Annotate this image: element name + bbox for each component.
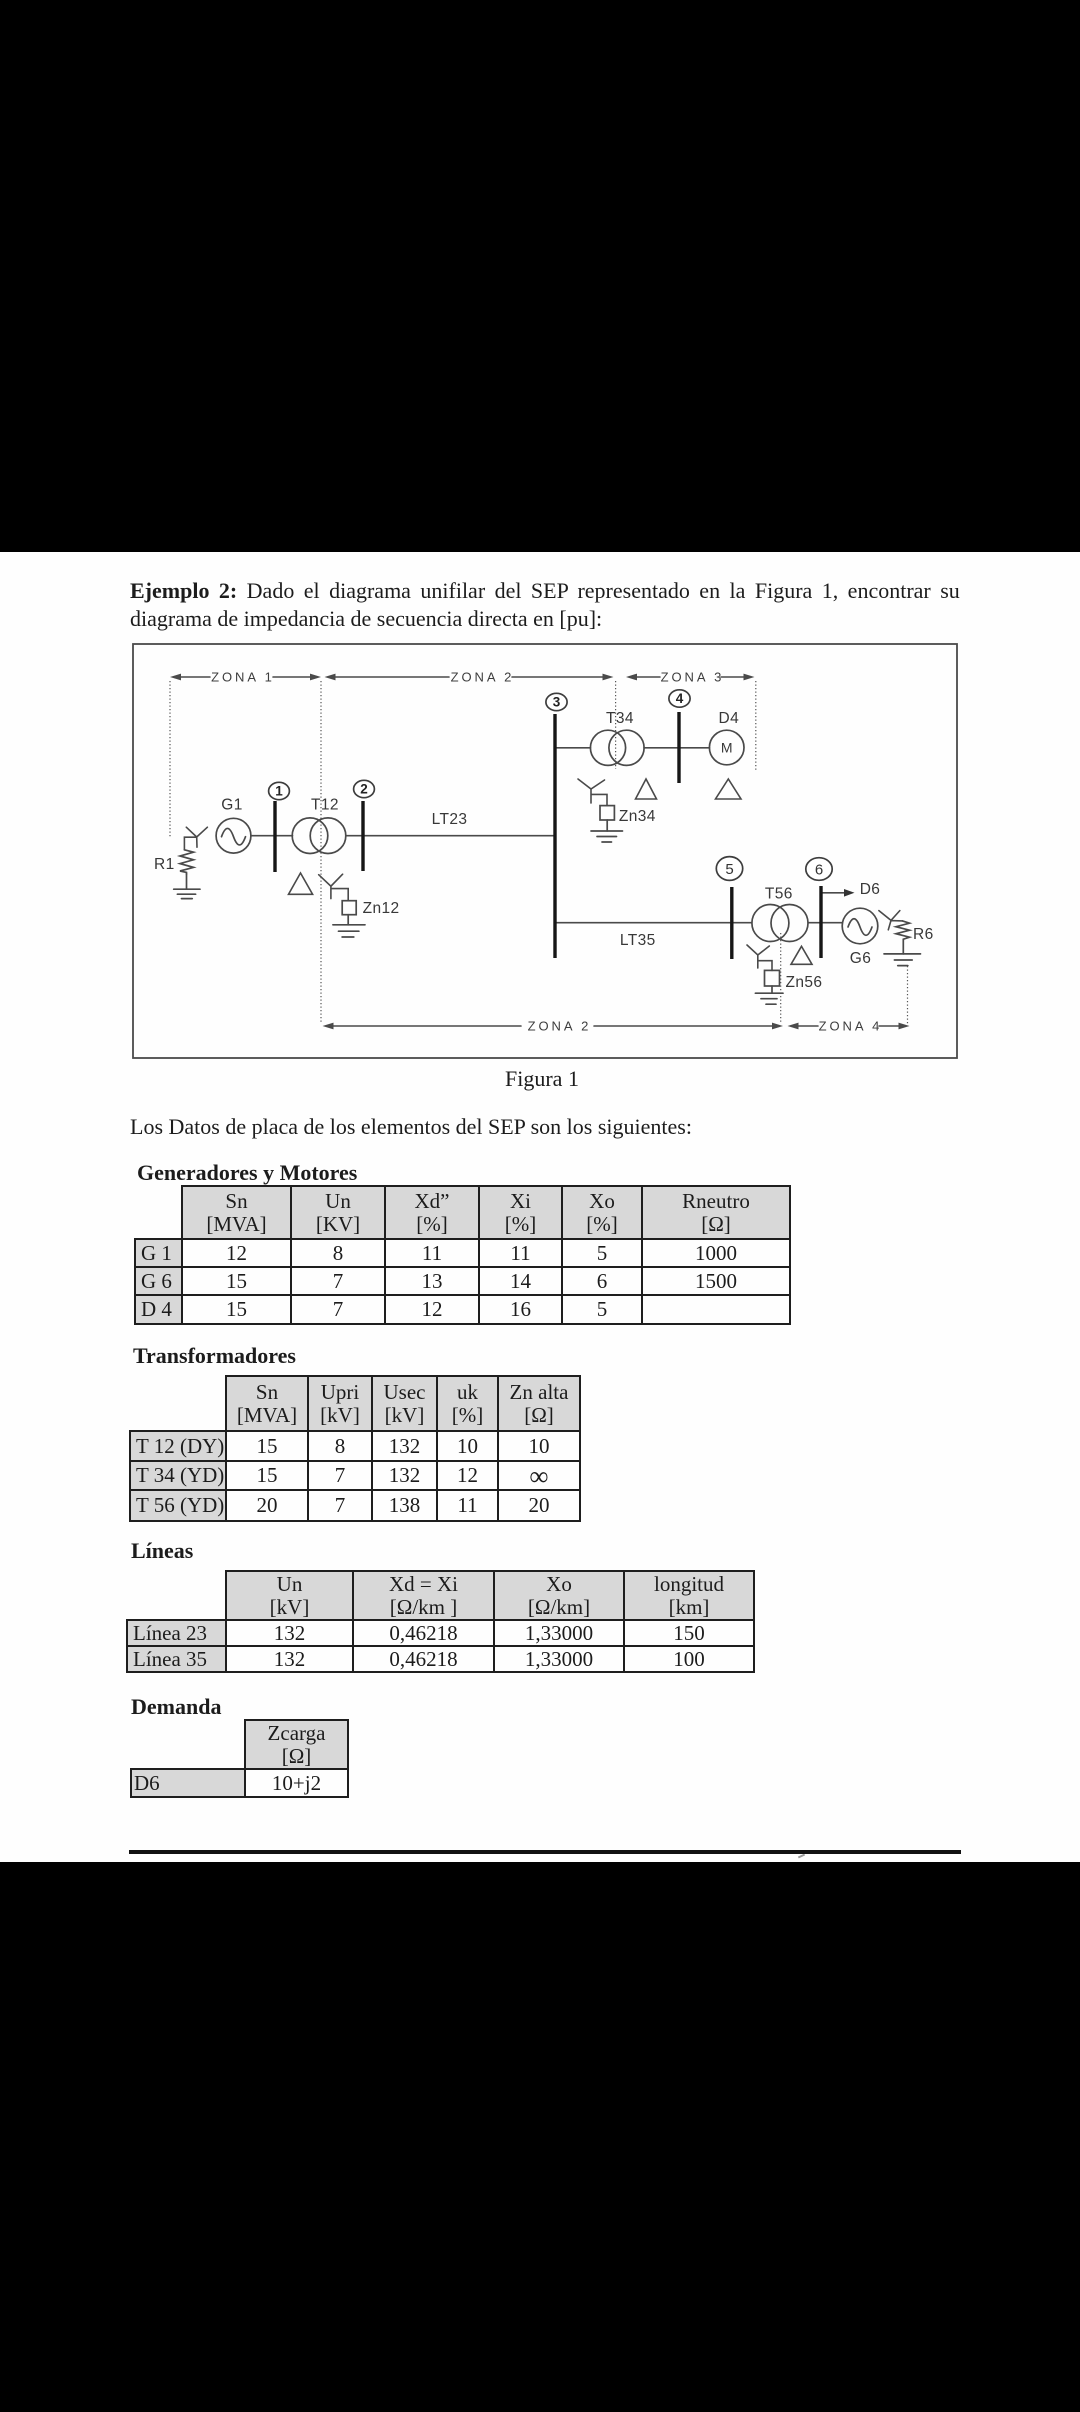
table Generadores — [134, 1185, 791, 1325]
svg-text:T12: T12 — [311, 797, 339, 814]
zone boundary dotted line zona2/zona3 (x=615.6) — [615, 681, 617, 769]
motor D4 — [709, 730, 744, 765]
zone span ZONA 4 bottom — [788, 1023, 910, 1030]
delta symbol of D4 — [716, 779, 742, 799]
svg-text:ZONA 2: ZONA 2 — [528, 1019, 592, 1034]
svg-text:R6: R6 — [913, 926, 934, 943]
wire T34 to bus4 to D4 — [644, 747, 710, 749]
wye symbol of T12 with neutral — [319, 874, 349, 901]
table Lineas — [126, 1570, 755, 1673]
impedance Zn56 — [765, 970, 780, 986]
impedance Zn12 — [342, 901, 356, 915]
zone boundary dotted line zona1/zona2 (x=321) — [320, 681, 322, 1024]
wire T12 to bus2 — [346, 835, 363, 837]
wye symbol of G6 with neutral to R6 — [879, 911, 903, 930]
svg-text:LT35: LT35 — [620, 932, 656, 949]
zone span ZONA 3 top — [626, 674, 755, 681]
node 4 — [669, 690, 690, 707]
svg-text:4: 4 — [676, 691, 684, 706]
bus 2 — [361, 801, 364, 871]
bus 1 — [273, 801, 276, 872]
svg-text:T56: T56 — [765, 886, 793, 903]
table Transformadores — [129, 1375, 581, 1522]
svg-text:M: M — [721, 740, 733, 756]
svg-text:ZONA 4: ZONA 4 — [819, 1019, 883, 1034]
heading 3 — [131, 1538, 193, 1564]
svg-text:1: 1 — [275, 783, 283, 798]
impedance Zn34 — [600, 806, 614, 820]
svg-text:G1: G1 — [221, 797, 242, 814]
bus 6 — [819, 886, 822, 958]
svg-text:T34: T34 — [606, 710, 634, 727]
transformer T34 — [590, 730, 644, 765]
zone span ZONA 2 top — [325, 674, 614, 681]
svg-text:5: 5 — [725, 861, 733, 878]
svg-text:ZONA 3: ZONA 3 — [661, 670, 725, 685]
table Demanda — [130, 1719, 349, 1798]
heading 4 — [131, 1694, 221, 1720]
paragraph: Los Datos — [130, 1114, 692, 1140]
wye symbol of T34 with neutral — [578, 779, 607, 806]
svg-text:Zn12: Zn12 — [363, 900, 400, 917]
svg-text:R1: R1 — [154, 856, 175, 873]
ground of R1 — [174, 874, 200, 899]
delta symbol of T56 — [791, 946, 812, 964]
footer rule — [129, 1850, 961, 1854]
svg-text:D6: D6 — [860, 881, 881, 898]
wire T56 to bus6 to G6 — [808, 922, 842, 924]
paragraph: Ejemplo 2 — [130, 578, 960, 604]
svg-text:3: 3 — [553, 694, 561, 709]
bus 3 — [553, 714, 556, 958]
transformer T12 — [292, 818, 346, 854]
zone boundary dotted line left (x=170) — [169, 681, 171, 838]
load branch D6 arrow — [821, 892, 846, 894]
svg-text:ZONA 1: ZONA 1 — [211, 670, 275, 685]
zone span ZONA 1 top — [170, 674, 321, 681]
svg-text:2: 2 — [360, 781, 368, 796]
line LT35 bus3 to bus5 — [555, 922, 752, 924]
stray mark above black area — [798, 1854, 805, 1859]
svg-text:6: 6 — [815, 861, 823, 878]
bus 4 — [677, 712, 680, 783]
line LT23 bus2 to bus3 — [363, 835, 555, 837]
svg-text:D4: D4 — [718, 710, 739, 727]
ground of Zn12 — [333, 915, 365, 937]
heading 1 — [137, 1160, 357, 1186]
svg-text:Zn56: Zn56 — [786, 974, 823, 991]
wire G1 to bus1 to T12 — [251, 835, 293, 837]
heading 2 — [133, 1343, 296, 1369]
zone boundary dotted line zona2/zona4 (x=780.7) — [780, 933, 782, 1024]
node 6 — [806, 858, 832, 881]
delta symbol of T12 — [289, 873, 313, 894]
caption — [505, 1066, 579, 1092]
generator G1 — [216, 818, 251, 853]
svg-text:Zn34: Zn34 — [619, 808, 656, 825]
resistor R1 — [180, 850, 194, 874]
node 5 — [716, 857, 742, 881]
zone span ZONA 2 bottom — [323, 1023, 784, 1030]
page background — [0, 552, 1080, 1862]
resistor R6 — [896, 921, 910, 940]
wye symbol of G1 with neutral to R1 — [184, 827, 207, 850]
zone boundary dotted line zona4 right (x=907.5) — [907, 966, 909, 1024]
node 2 — [354, 780, 375, 797]
bus 5 — [730, 887, 733, 959]
delta symbol of T34 — [636, 779, 657, 799]
wye symbol of T56 with neutral — [747, 945, 772, 970]
node 3 — [546, 693, 567, 710]
figure frame — [133, 644, 957, 1058]
transformer T56 — [752, 905, 808, 942]
zone boundary dotted line zona3 right (x=755.8) — [755, 681, 757, 770]
node 1 — [269, 782, 290, 799]
wire bus3 to T34 — [555, 747, 591, 749]
ground of Zn34 — [591, 820, 623, 842]
generator G6 — [842, 908, 878, 944]
ground of Zn56 — [755, 986, 783, 1004]
ground of R6 — [884, 940, 921, 966]
svg-text:ZONA 2: ZONA 2 — [451, 670, 515, 685]
svg-text:G6: G6 — [850, 950, 871, 967]
svg-text:LT23: LT23 — [432, 811, 468, 828]
